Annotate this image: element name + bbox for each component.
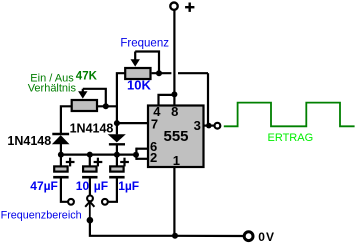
wire pin 4 bracket (159, 95, 175, 105)
switch contact middle (87, 196, 93, 202)
svg-text:Frequenzbereich: Frequenzbereich (1, 210, 82, 222)
wire pins 6 and 2 bracket (136, 148, 147, 160)
switch contact left (68, 199, 74, 205)
wire P2 right terminal (98, 105, 117, 107)
svg-text:1N4148: 1N4148 (70, 121, 114, 135)
svg-text:47K: 47K (76, 71, 98, 83)
node rail pins 6/2 (133, 152, 139, 158)
svg-text:1: 1 (173, 153, 180, 168)
wire pin 7 (117, 122, 148, 124)
svg-text:8: 8 (171, 104, 178, 119)
wire capacitors top rail (61, 154, 136, 156)
switch selector arrow (85, 202, 94, 220)
terminal output (215, 123, 221, 129)
switch contact right (102, 199, 108, 205)
node P2 right junction (103, 103, 109, 109)
P2 wiper arrow (78, 89, 87, 99)
label + (supply plus) (185, 3, 194, 12)
node rail D2/C3 (114, 152, 120, 158)
capacitor C2 10µF (82, 155, 97, 196)
node pin 1 / ground rail (172, 233, 178, 239)
svg-text:1µF: 1µF (118, 179, 139, 193)
wire ground rail to 0V (175, 235, 244, 237)
IC U1 555 body (148, 106, 204, 168)
capacitor C3 1µF (108, 155, 125, 202)
svg-text:1N4148: 1N4148 (7, 134, 51, 148)
waveform output square wave (224, 103, 355, 127)
node pin 7 junction (114, 120, 120, 126)
diode D2 1N4148 (cathode down) (108, 134, 126, 154)
capacitor C1 47µF (53, 155, 68, 202)
svg-text:ERTRAG: ERTRAG (268, 132, 314, 144)
C1 plus sign (66, 158, 75, 167)
wire P2 wiper bracket (83, 89, 106, 104)
wire P1 wiper bracket (135, 52, 159, 72)
wire P1 left terminal down left column (117, 73, 125, 134)
node junction above pin 8 (171, 91, 177, 97)
wire switch pivot to ground rail (90, 220, 175, 236)
svg-text:Frequenz: Frequenz (120, 37, 169, 49)
terminal V+ (170, 2, 177, 9)
wire P2 left terminal down to D1 (61, 106, 72, 133)
svg-text:47µF: 47µF (30, 179, 58, 193)
svg-text:555: 555 (164, 128, 189, 145)
svg-text:µF: µF (94, 179, 108, 193)
C3 plus sign (120, 158, 129, 167)
svg-text:2: 2 (150, 150, 157, 165)
node pin 3 junction (206, 123, 212, 129)
svg-text:10: 10 (76, 179, 90, 193)
potentiometer P1 10K body (125, 68, 150, 79)
diode D1 1N4148 (cathode up) (52, 134, 70, 155)
wire P1 right terminal to output column (gap at +rail) (152, 73, 208, 125)
node switch pivot (87, 217, 94, 224)
wire pin 1 down (173, 167, 175, 236)
svg-text:0: 0 (258, 230, 265, 244)
potentiometer P2 47K body (72, 100, 97, 111)
wire +rail down to pin 8 (173, 10, 175, 105)
node rail C2 (87, 152, 93, 158)
wire pin 3 stub (204, 124, 214, 126)
C2 plus sign (94, 158, 103, 167)
P1 wiper arrow (131, 52, 140, 67)
node rail D1/C1 (58, 152, 64, 158)
terminal 0V (244, 232, 253, 241)
svg-text:7: 7 (151, 117, 158, 132)
svg-text:Verhältnis: Verhältnis (28, 83, 77, 95)
svg-text:3: 3 (194, 118, 201, 133)
svg-text:V: V (266, 230, 274, 244)
node P1 right junction (156, 70, 162, 76)
svg-text:10K: 10K (127, 78, 151, 93)
